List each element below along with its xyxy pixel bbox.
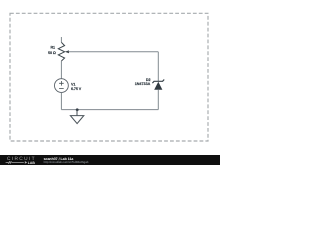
zener diode D2 [152,80,164,90]
svg-text:V1: V1 [71,82,75,86]
CircuitLab logo LAB [28,161,36,165]
value label 6.75 V [71,87,82,91]
svg-text:R1: R1 [50,45,55,49]
CircuitLab logo waveform [6,161,24,163]
wire R1 bottom to V1 top [60,61,62,79]
wire right rail upper [157,52,159,82]
ground symbol [70,110,83,124]
value label 50 Ω [48,51,56,55]
wire top stub of R1 [60,37,62,42]
selection dashed border [10,13,208,141]
svg-text:http://circuitlab.com/c/7hd83c: http://circuitlab.com/c/7hd83c26gab [44,160,89,164]
wire bottom rail [61,109,158,111]
wire wiper to right rail [69,51,159,53]
svg-text:LAB: LAB [28,161,36,165]
footer url text [44,160,89,164]
svg-text:1N4733A: 1N4733A [135,82,151,86]
wire right rail lower [157,90,159,110]
wiper arrow of R1 [65,50,69,53]
CircuitLab logo arrow [25,161,27,164]
label V1 [71,82,75,86]
wire V1 bottom to bottom rail [60,93,62,110]
svg-text:6.75 V: 6.75 V [71,87,82,91]
voltage source V1 [55,79,69,93]
label R1 [50,45,55,49]
resistor R1 (potentiometer zigzag) [58,42,64,61]
junction node dot [76,108,79,111]
value label 1N4733A [135,82,151,86]
svg-text:50 Ω: 50 Ω [48,51,56,55]
footer title text [44,157,74,161]
footer bar [0,155,220,165]
CircuitLab logo wordmark CIRCUIT [7,156,36,162]
label D2 [146,78,151,82]
